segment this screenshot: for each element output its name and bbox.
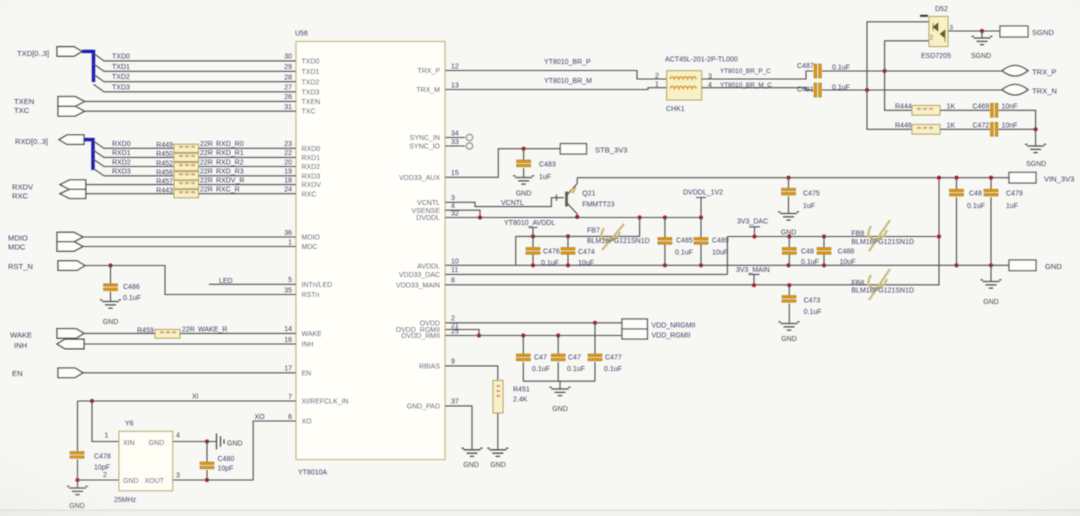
- node junction: [699, 263, 703, 267]
- wire R446-C472: [940, 128, 990, 130]
- node C478/gnd junction: [75, 478, 79, 482]
- transistor Q21 FMMTT23: [565, 192, 568, 207]
- node junction: [566, 234, 570, 238]
- wire WAKE: [84, 332, 155, 334]
- node TRX_N node: [865, 88, 869, 92]
- wire RXC: [86, 193, 174, 195]
- wire TXD1: [94, 64, 297, 72]
- wire AVDDL: [516, 218, 640, 266]
- resistor resistor R456: [174, 172, 199, 180]
- wire VSENSE stub: [445, 210, 480, 217]
- node junction: [531, 263, 535, 267]
- wire VIN_3V3 rail: [577, 177, 1009, 179]
- capacitor C485: [658, 238, 672, 241]
- ferrite bead FB7 BLM18PG121SN1D: [601, 224, 624, 250]
- wire 3V3_DAC line: [727, 236, 939, 238]
- wire TXD0: [94, 53, 297, 61]
- node junction: [954, 263, 958, 267]
- wire C489 branch: [700, 218, 702, 266]
- node junction: [663, 215, 667, 219]
- ground (C473): [781, 324, 798, 331]
- wire R444 row: [885, 71, 912, 110]
- node C473 node: [787, 283, 791, 287]
- wire TXC: [85, 110, 297, 112]
- capacitor C488: [817, 248, 831, 251]
- wire XTAL gnd row: [78, 479, 120, 481]
- resistor resistor R457: [174, 181, 199, 189]
- wire D52 pin1 wire: [867, 22, 929, 90]
- capacitor C483: [517, 160, 531, 163]
- node junction: [477, 333, 481, 337]
- wire C488 branch: [823, 237, 825, 266]
- node VIN_3V3 box: [1009, 172, 1036, 183]
- wire C475 branch: [788, 178, 790, 214]
- wire TXEN: [85, 100, 297, 102]
- node junction: [989, 176, 993, 180]
- wire cap gnd rail: [523, 380, 595, 382]
- wire VCNTL: [445, 198, 564, 207]
- wire C477 branch: [594, 323, 596, 381]
- node STB_3V3 box: [560, 144, 586, 154]
- node VSENSE/DVDDL junction: [478, 215, 482, 219]
- resistor resistor R450: [174, 153, 199, 161]
- node RST_N/C486 junction: [108, 263, 112, 267]
- wire gnd stub below C478: [77, 480, 79, 488]
- wire RXD2_r: [199, 166, 297, 168]
- ground (rotated, Y6 pin4): [217, 434, 225, 450]
- wire AVDDL/GND rail: [445, 264, 1009, 266]
- capacitor C470: [516, 354, 530, 357]
- wire RXD0: [93, 141, 174, 149]
- node Q21 emitter node: [575, 215, 579, 219]
- wire VDD33_MAIN (pin8): [445, 178, 939, 285]
- resistor resistor R444: [912, 106, 940, 116]
- node junction: [786, 176, 790, 180]
- node C472 out node: [1034, 127, 1038, 131]
- ground (OVDD caps): [552, 389, 569, 396]
- wire GND_PAD: [445, 406, 472, 450]
- node junction: [822, 263, 826, 267]
- wire RXDV: [86, 184, 174, 186]
- node TRX_P node: [883, 69, 887, 73]
- ground (C483): [515, 178, 532, 185]
- node junction: [521, 333, 525, 337]
- wire TXD3: [94, 84, 297, 92]
- wire C471 branch: [557, 336, 559, 382]
- node DVDDL_1V2 node: [699, 215, 703, 219]
- capacitor C478: [70, 452, 84, 455]
- wire OVDD_RGMII (pin21): [445, 330, 479, 336]
- wire C479 branch: [990, 178, 992, 282]
- wire TRX_P out: [822, 70, 1003, 72]
- wire D52 out: [948, 30, 1000, 32]
- node junction: [593, 321, 597, 325]
- capacitor C489: [694, 238, 708, 241]
- transformer CHK1 ACT45L-201-2P-TL000: [667, 71, 702, 100]
- wire C480 branch: [206, 442, 208, 481]
- wire Y6 pin4: [173, 441, 216, 443]
- wire RXD2: [93, 159, 174, 167]
- node VDD_RGMII box: [622, 329, 647, 339]
- wire RXD3_r: [199, 175, 297, 177]
- node 3V3_MAIN tie: [752, 283, 756, 287]
- wire OVDD (pin2): [445, 322, 622, 324]
- node GND box: [1009, 260, 1036, 271]
- wire R451 gnd: [497, 413, 499, 450]
- crystal Y6 25MHz: [119, 431, 173, 490]
- node junction: [937, 176, 941, 180]
- node D52 gnd node: [980, 29, 984, 33]
- ground (C479): [983, 282, 1000, 289]
- capacitor C476: [526, 248, 540, 251]
- node junction: [822, 234, 826, 238]
- resistor R451 2.4K: [493, 381, 503, 414]
- ferrite bead FB8 (lower) BLM18PG121SN1D: [868, 269, 890, 300]
- wire RXC_r: [199, 193, 297, 195]
- wire RXD3: [93, 168, 174, 176]
- op-amp U56 IC body YT8010A: [296, 42, 445, 460]
- resistor resistor R459: [155, 330, 180, 339]
- wire VDD33_AUX: [445, 149, 561, 178]
- wire C476 branch: [532, 236, 534, 265]
- node junction: [786, 263, 790, 267]
- wire YT8010_BR_M_C: [702, 88, 813, 90]
- node VDD_NRGMII box: [622, 319, 647, 329]
- capacitor C479: [984, 189, 998, 192]
- node C480/XOUT junction: [205, 478, 209, 482]
- resistor resistor R443: [174, 190, 199, 198]
- ground SGND (top right): [1027, 146, 1044, 153]
- wire RXD1: [93, 150, 174, 158]
- wire XI: [78, 400, 297, 402]
- node TRX_P connector: [1002, 65, 1028, 76]
- node junction: [638, 215, 642, 219]
- capacitor C473: [782, 296, 796, 299]
- wire C474 branch: [567, 236, 569, 265]
- capacitor C477: [588, 354, 602, 357]
- wire YT8010_BR_P: [445, 71, 667, 80]
- wire R444-C469: [940, 109, 990, 111]
- capacitor C491: [814, 83, 817, 97]
- wire INH: [84, 343, 296, 345]
- node junction: [531, 234, 535, 238]
- capacitor C482: [950, 189, 964, 192]
- ground (C486): [102, 302, 119, 309]
- wire RXD bus (blue): [84, 140, 93, 170]
- wire RXD1_r: [199, 156, 297, 158]
- wire cap out join: [999, 110, 1036, 146]
- resistor resistor R446: [912, 125, 940, 135]
- capacitor C469: [991, 103, 994, 117]
- wire MDC: [83, 246, 296, 248]
- node junction: [663, 263, 667, 267]
- wire C481 branch: [788, 237, 790, 266]
- capacitor C474: [561, 248, 575, 251]
- resistor resistor R449: [174, 144, 199, 152]
- node TRX_N connector: [1002, 84, 1028, 95]
- ground (GND_PAD): [464, 450, 481, 457]
- wire R446 row: [867, 90, 912, 129]
- node junction: [566, 263, 570, 267]
- wire SYNC_IO stub (no connect): [445, 145, 465, 147]
- diode D52 ESD7205: [929, 17, 948, 47]
- node FB8 upper to VIN: [937, 234, 941, 238]
- capacitor C486: [104, 284, 118, 287]
- wire C485 branch: [664, 218, 666, 266]
- wire C482 branch: [956, 178, 958, 266]
- wire XIN drop: [92, 401, 119, 442]
- wire TXD2: [94, 74, 297, 82]
- wire XOUT row: [173, 421, 296, 480]
- wire RXD0_r: [199, 147, 297, 149]
- wire TRX_N out: [822, 89, 1003, 91]
- wire SYNC_IN stub (no connect): [445, 137, 465, 139]
- node XI junction: [90, 399, 94, 403]
- node pin4/C480 junction: [205, 439, 209, 443]
- capacitor C480: [200, 462, 214, 465]
- node junction: [752, 234, 756, 238]
- node SGND box: [1000, 26, 1028, 37]
- capacitor C472: [991, 122, 994, 136]
- wire RST_N: [85, 266, 296, 295]
- wire EN: [83, 372, 296, 374]
- wire YT8010_BR_M: [445, 88, 667, 90]
- wire C478 branch: [77, 401, 79, 480]
- node junction: [787, 234, 791, 238]
- capacitor C487: [814, 64, 817, 78]
- wire C470 branch: [522, 336, 524, 382]
- wire RXDV_r: [199, 184, 297, 186]
- wire MDIO: [83, 236, 296, 238]
- wire WAKE_R: [180, 332, 296, 334]
- wire D52 pin2 wire: [885, 41, 929, 71]
- wire C473 branch: [788, 285, 790, 323]
- wire C486 branch: [110, 266, 112, 302]
- wire TXD bus (blue): [82, 51, 94, 82]
- wire YT8010_BR_P_C: [702, 71, 813, 79]
- wire VDD33_DAC (pin11): [445, 237, 727, 275]
- ferrite bead FB8 (upper) BLM18PG121SN1D: [868, 220, 890, 251]
- capacitor C481: [782, 248, 796, 251]
- node junction: [954, 176, 958, 180]
- resistor resistor R452: [174, 162, 199, 170]
- node STB_3V3 node: [522, 147, 526, 151]
- ground SGND (D52): [974, 38, 991, 45]
- wire OVDD_RMII (pin25): [445, 335, 622, 337]
- node junction: [556, 333, 560, 337]
- capacitor C471: [551, 354, 565, 357]
- ground (R451): [489, 450, 506, 457]
- wire RBIAS: [445, 366, 498, 381]
- ground (C478): [69, 488, 86, 495]
- node junction: [989, 263, 993, 267]
- capacitor C475: [782, 188, 796, 191]
- ground (C475): [780, 214, 797, 221]
- wire C483 branch: [523, 149, 525, 178]
- wire DVDDL: [445, 217, 701, 219]
